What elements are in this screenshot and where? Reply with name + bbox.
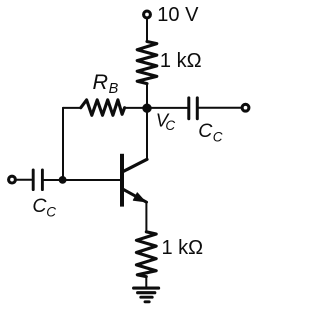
transistor Q1 emitter arrowhead [133,193,145,202]
svg-text:1 kΩ: 1 kΩ [162,237,204,259]
transistor Q1 emitter lead with arrow [124,190,147,203]
svg-text:B: B [109,81,119,97]
capacitor CC output right plate [196,98,199,119]
wire input terminal to CC [16,179,31,181]
wire node VC down to collector [146,108,148,159]
svg-text:C: C [165,118,175,133]
terminal output [242,104,249,111]
svg-text:C: C [213,130,223,145]
svg-text:1 kΩ: 1 kΩ [160,50,202,72]
terminal input [9,176,16,183]
ground symbol [134,288,159,302]
resistor R1 1k (collector) [137,42,157,84]
resistor RB [81,100,125,115]
node B junction dot [59,176,67,184]
wire R2 to ground [145,277,147,288]
svg-text:C: C [198,120,213,142]
transistor Q1 collector lead [124,159,148,171]
capacitor CC input right plate [41,170,44,190]
svg-text:10 V: 10 V [157,4,199,26]
wire capacitor to output terminal [199,107,241,109]
svg-text:C: C [46,205,56,220]
svg-text:C: C [32,195,47,217]
capacitor CC output left plate [187,98,190,119]
wire node B up to RB [62,108,64,180]
wire CC to base [44,179,120,181]
resistor R2 1k (emitter) [136,232,156,277]
wire emitter down to R2 [145,202,147,232]
wire node to output capacitor [125,107,188,109]
capacitor CC input left plate [32,170,35,190]
node VC junction dot [142,104,151,113]
wire R1 to node VC [146,84,148,108]
terminal +10V supply [144,11,151,18]
svg-text:R: R [93,70,109,94]
wire supply to R1 [146,19,148,41]
wire RB left lead [63,107,81,109]
transistor Q1 base bar [120,154,124,207]
